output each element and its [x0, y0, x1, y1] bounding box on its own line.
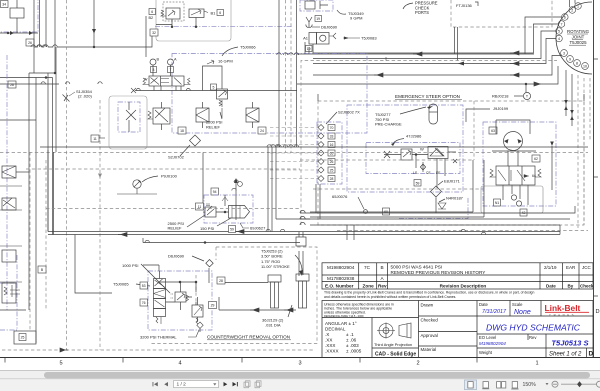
- svg-text:Revision Description: Revision Description: [440, 283, 487, 288]
- svg-text:PORTS: PORTS: [415, 10, 429, 15]
- svg-text:Scale: Scale: [512, 302, 523, 307]
- svg-text:D: D: [589, 351, 594, 358]
- svg-text:ROTATING: ROTATING: [567, 29, 590, 34]
- svg-text:10: 10: [583, 64, 587, 68]
- svg-text:11.00" STROKE: 11.00" STROKE: [261, 264, 290, 269]
- svg-text:59: 59: [230, 228, 234, 232]
- steer block outline: [481, 186, 543, 213]
- wire y120: [0, 119, 36, 121]
- toolbar: [0, 379, 600, 391]
- below valve: [503, 185, 528, 205]
- pilot relief valve lower: [192, 297, 203, 324]
- grey dashed vertical x100: [99, 100, 101, 350]
- svg-text:± .003: ± .003: [346, 343, 359, 348]
- svg-text:(2 .020): (2 .020): [78, 94, 92, 99]
- svg-text:A1: A1: [303, 36, 309, 41]
- svg-text:D: D: [596, 309, 600, 315]
- right cluster view icons: [465, 380, 477, 390]
- extra density: verticals mid sheet: [268, 147, 310, 232]
- svg-text:EO Level: EO Level: [479, 335, 496, 340]
- dashed pilot line y189: [313, 188, 483, 190]
- E8J0171 diamond: [431, 186, 442, 197]
- 2200 PSI relief loop: [203, 66, 223, 91]
- Link-Belt logo: [545, 303, 590, 317]
- third angle projection symbol: [377, 323, 411, 339]
- svg-text:25: 25: [21, 336, 25, 340]
- T5J0253 text: [261, 249, 290, 270]
- svg-text:8: 8: [576, 61, 578, 65]
- 47J2986 cluster: [366, 143, 460, 174]
- svg-text:JOINT: JOINT: [572, 35, 585, 40]
- svg-text:N4R0187: N4R0187: [446, 196, 464, 201]
- svg-text:Sheet 1 of 2: Sheet 1 of 2: [549, 351, 582, 357]
- svg-text:.X: .X: [325, 332, 329, 337]
- 36J2129 label: [262, 318, 284, 328]
- svg-text:Approval: Approval: [421, 333, 438, 338]
- joint pin circles: [556, 3, 589, 70]
- label S1J0354: [76, 89, 93, 99]
- svg-text:S2J0602 7X: S2J0602 7X: [338, 110, 360, 115]
- svg-text:64: 64: [532, 174, 536, 178]
- main directional valve: [149, 76, 184, 86]
- hydraulic motor: [504, 132, 523, 151]
- wire horiz y47 with bridges: [34, 36, 152, 47]
- left relief valve in cluster: [148, 102, 170, 130]
- blue inner box steer: [347, 105, 463, 192]
- svg-text:.031 DIA: .031 DIA: [265, 323, 281, 328]
- svg-text:9 GPM: 9 GPM: [350, 16, 362, 21]
- svg-text:Date: Date: [479, 302, 489, 307]
- svg-text:B: B: [381, 265, 384, 270]
- wire stubs from connector column to bus: [316, 184, 320, 219]
- wire joint pin2: [569, 0, 571, 7]
- wire from bus to counterweight valve: [75, 235, 112, 294]
- scrollbar thumb: [44, 372, 590, 378]
- option sub-box blue: [399, 197, 468, 219]
- wire joint pin7 stair: [313, 24, 558, 53]
- svg-text:7/31/2017: 7/31/2017: [482, 309, 507, 315]
- svg-text:7C: 7C: [364, 265, 371, 270]
- wire pair y73/77.5: [0, 73, 56, 78]
- filter under pump: [211, 188, 219, 195]
- svg-text:26: 26: [330, 160, 334, 164]
- svg-text:34: 34: [2, 3, 6, 7]
- svg-text:3: 3: [298, 361, 301, 367]
- svg-text:65J0076: 65J0076: [332, 194, 348, 199]
- svg-text:76: 76: [142, 301, 146, 305]
- svg-text:65: 65: [330, 152, 334, 156]
- tag 6 + B2 left: [149, 9, 156, 15]
- svg-text:RELIEF: RELIEF: [206, 124, 221, 129]
- svg-text:± .06: ± .06: [346, 338, 357, 343]
- tag 34 corner: [1, 1, 9, 8]
- tag 60: [383, 208, 390, 215]
- svg-text:ANGULAR ± 1°: ANGULAR ± 1°: [325, 321, 357, 326]
- svg-text:26: 26: [28, 41, 32, 45]
- svg-text:1000 PSI: 1000 PSI: [122, 263, 138, 268]
- lower block frame: [322, 301, 593, 358]
- S2J0702 diamond: [190, 135, 201, 146]
- wire y90.5: [135, 90, 297, 92]
- wires bus y147-169: [40, 146, 588, 148]
- dashed stubs left of connector: [270, 128, 318, 179]
- svg-text:2: 2: [571, 8, 573, 12]
- bridge humps texture: [31, 45, 486, 243]
- valve A1 with T5J0083: [309, 33, 336, 45]
- svg-text:D6J0690: D6J0690: [168, 254, 185, 259]
- svg-text:T5J0513 S: T5J0513 S: [551, 339, 588, 348]
- bottom-left return line group: [35, 240, 37, 343]
- tag 19 lower: [306, 46, 313, 52]
- svg-text:M198802904: M198802904: [327, 265, 355, 270]
- two check valves inside box: [196, 102, 259, 128]
- svg-text:EMERGENCY STEER OPTION: EMERGENCY STEER OPTION: [395, 94, 460, 99]
- svg-text:63: 63: [491, 129, 495, 133]
- pressure check ports cluster (top, x300-460): [300, 0, 333, 11]
- svg-text:and details contained herein i: and details contained herein is prohibit…: [324, 295, 456, 299]
- svg-text:6: 6: [219, 11, 221, 15]
- svg-text:DECIMAL: DECIMAL: [325, 327, 346, 332]
- LS CF EF wires below: [416, 155, 445, 189]
- tag 6: [217, 10, 224, 16]
- double bus y231.5/234.5: [48, 232, 560, 235]
- svg-text:JCC: JCC: [582, 265, 591, 270]
- svg-text:Zone: Zone: [363, 283, 375, 288]
- sampling valve glyph: [306, 17, 312, 28]
- svg-text:16: 16: [330, 143, 334, 147]
- svg-text:3200 PSI THERMAL: 3200 PSI THERMAL: [140, 335, 177, 340]
- option box (blue dash-dot, top-left): [0, 0, 38, 35]
- svg-text:47J2986: 47J2986: [406, 134, 422, 139]
- svg-text:T5J0083: T5J0083: [361, 36, 377, 41]
- grey dashed box emergency steer: [318, 101, 584, 225]
- svg-text:REFERENCE ASME Y14.5 - 2009: REFERENCE ASME Y14.5 - 2009: [324, 314, 364, 318]
- svg-text:94: 94: [213, 190, 217, 194]
- svg-text:None: None: [514, 309, 531, 316]
- svg-text:5: 5: [59, 361, 62, 367]
- wire joint pin6: [525, 17, 562, 54]
- svg-text:Link-Belt: Link-Belt: [545, 303, 581, 313]
- svg-text:± .1: ± .1: [346, 332, 354, 337]
- svg-text:18: 18: [180, 129, 184, 133]
- valve row enclosure: [156, 0, 231, 41]
- wire y242.5: [143, 238, 300, 243]
- svg-text:Third Angle Projection: Third Angle Projection: [374, 342, 412, 347]
- svg-text:4: 4: [178, 361, 181, 367]
- svg-text:19: 19: [316, 17, 320, 21]
- cylinders: [268, 274, 309, 308]
- svg-text:M178802938: M178802938: [327, 276, 355, 281]
- svg-text:11: 11: [93, 137, 97, 141]
- tag 19 upper: [315, 16, 322, 22]
- svg-text:By: By: [568, 283, 574, 288]
- svg-text:70: 70: [330, 126, 334, 130]
- svg-text:.XXXX: .XXXX: [325, 349, 339, 354]
- right-of-row vertical bundle x279-297: [279, 0, 297, 153]
- small blue box valve x118-140: [109, 96, 147, 149]
- svg-text:.XXX: .XXX: [325, 343, 335, 348]
- tag 28 left: [8, 81, 16, 88]
- wire joint pin1: [574, 0, 576, 4]
- valve V1 (pilot with spring): [161, 2, 184, 21]
- verticals right of joint going down: [566, 70, 590, 228]
- svg-text:EF: EF: [436, 171, 440, 175]
- svg-text:25: 25: [330, 169, 334, 173]
- tag 59: [414, 180, 421, 187]
- grey dashed vertical x66: [66, 0, 68, 350]
- valve V2 (solenoid): [189, 9, 208, 18]
- svg-text:COUNTERWEIGHT REMOVAL OPTION: COUNTERWEIGHT REMOVAL OPTION: [207, 335, 290, 340]
- svg-text:150 PSI: 150 PSI: [200, 226, 214, 231]
- orifice S1J0354: [63, 95, 70, 102]
- svg-text:Checked: Checked: [421, 318, 439, 323]
- svg-text:1: 1: [577, 4, 579, 8]
- svg-text:32: 32: [152, 31, 156, 35]
- svg-text:Check: Check: [580, 283, 594, 288]
- svg-text:RBJ0218: RBJ0218: [492, 94, 509, 99]
- svg-text:28: 28: [219, 279, 223, 283]
- svg-text:PRE-CHARGE: PRE-CHARGE: [375, 122, 402, 127]
- svg-text:B2: B2: [149, 16, 154, 20]
- svg-text:RELIEF: RELIEF: [168, 226, 183, 231]
- svg-text:6: 6: [151, 10, 153, 14]
- svg-text:16 GPM: 16 GPM: [218, 59, 233, 64]
- bus y84 across sheet: [0, 66, 558, 84]
- svg-text:M198802904: M198802904: [479, 341, 506, 346]
- svg-text:D6J0690: D6J0690: [321, 25, 338, 30]
- wire bundle left verticals (lower): [29, 47, 56, 310]
- svg-text:CRANES: CRANES: [549, 313, 576, 317]
- svg-text:2: 2: [416, 361, 419, 367]
- small fitting above cylinder 2: [296, 237, 306, 246]
- counterweight valve assembly: [148, 271, 212, 330]
- wire joint pin3 stair: [313, 56, 562, 76]
- svg-text:2/1/19: 2/1/19: [544, 265, 557, 270]
- grey dashed horizontal y350 with arrow: [2, 349, 313, 351]
- svg-text:28: 28: [330, 177, 334, 181]
- svg-text:Material: Material: [421, 347, 437, 352]
- tags 18 / 24: [178, 127, 186, 134]
- wire y54: [297, 44, 534, 54]
- bus y213/219/225 left parts: [300, 213, 310, 219]
- svg-text:Date: Date: [546, 283, 556, 288]
- svg-text:T5J0065: T5J0065: [113, 282, 129, 287]
- svg-text:4: 4: [558, 37, 560, 41]
- svg-text:E8J0171: E8J0171: [444, 179, 461, 184]
- svg-text:33: 33: [330, 135, 334, 139]
- verticals feeding title area: [347, 225, 354, 240]
- tag 32: [150, 29, 158, 36]
- svg-text:Drawn: Drawn: [421, 303, 434, 308]
- svg-text:± .0005: ± .0005: [346, 349, 362, 354]
- PRESSURE CHECK PORTS label: [415, 1, 438, 16]
- svg-text:9: 9: [569, 57, 571, 61]
- svg-text:69J0627: 69J0627: [250, 226, 266, 231]
- svg-text:53: 53: [142, 284, 146, 288]
- solenoid valve stack: [154, 271, 166, 324]
- revision table frame: [322, 263, 593, 289]
- tag 11 (left): [91, 135, 99, 142]
- svg-text:EAR: EAR: [566, 265, 576, 270]
- wire joint pin5 stair: [313, 31, 556, 59]
- svg-text:CAD - Solid Edge: CAD - Solid Edge: [375, 352, 416, 358]
- svg-text:J9J0199: J9J0199: [493, 106, 509, 111]
- svg-text:1: 1: [535, 361, 538, 367]
- svg-text:S2J0702: S2J0702: [168, 155, 185, 160]
- svg-text:DWG HYD SCHEMATIC: DWG HYD SCHEMATIC: [486, 323, 581, 333]
- pressure reducing valve: [170, 282, 189, 310]
- thermal relief diamond: [197, 322, 203, 328]
- svg-text:3: 3: [563, 51, 565, 55]
- inner dashed pilot: [195, 275, 197, 305]
- tag 26: [26, 39, 34, 46]
- svg-text:REMOVED PREVIOUS REVISION HIST: REMOVED PREVIOUS REVISION HISTORY: [391, 270, 487, 275]
- svg-text:This drawing is the property o: This drawing is the property of Link-Bel…: [324, 290, 534, 294]
- svg-text:T5J0066: T5J0066: [240, 45, 256, 50]
- svg-text:LS: LS: [413, 171, 418, 175]
- vertical with arrow x94: [93, 0, 95, 47]
- wires valve row: [156, 18, 196, 27]
- svg-text:1 / 2: 1 / 2: [177, 382, 187, 388]
- nav icons: [153, 382, 169, 386]
- svg-text:24: 24: [260, 129, 264, 133]
- svg-text:E.O. Number: E.O. Number: [325, 283, 354, 288]
- svg-text:B1: B1: [211, 11, 217, 16]
- svg-text:29: 29: [211, 304, 215, 308]
- svg-text:28: 28: [10, 83, 14, 87]
- svg-text:Weight: Weight: [479, 350, 493, 355]
- svg-text:Rev: Rev: [529, 335, 537, 340]
- svg-text:59: 59: [416, 181, 420, 185]
- wire joint pin4 stair: [313, 39, 556, 64]
- tags: [140, 282, 148, 289]
- svg-text:150%: 150%: [523, 382, 537, 388]
- wires valve to bus: [143, 265, 159, 271]
- svg-text:7: 7: [561, 22, 563, 26]
- svg-text:62: 62: [534, 157, 538, 161]
- svg-text:FTJ0136: FTJ0136: [456, 3, 473, 8]
- dashed return y60.5: [301, 61, 557, 226]
- svg-text:5: 5: [558, 29, 560, 33]
- steer directional valve: [496, 166, 535, 185]
- svg-text:CF: CF: [426, 171, 431, 175]
- svg-text:6: 6: [564, 15, 566, 19]
- cylinder wires: [219, 283, 296, 311]
- svg-text:N1: N1: [495, 201, 499, 205]
- wire bundle left verticals (upper): [34, 0, 55, 73]
- grey dashed verticals left bundle: [29, 152, 31, 331]
- svg-text:Rev: Rev: [378, 283, 387, 288]
- svg-text:W: W: [144, 78, 148, 82]
- svg-text:T5J0025: T5J0025: [569, 40, 587, 45]
- svg-text:5: 5: [213, 86, 215, 90]
- svg-text:.XX: .XX: [325, 338, 332, 343]
- svg-text:P9J0100: P9J0100: [161, 174, 178, 179]
- accumulator T5J0277: [429, 104, 438, 124]
